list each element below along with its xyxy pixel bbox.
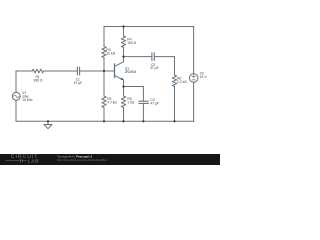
svg-text:47 µF: 47 µF bbox=[150, 66, 159, 70]
node ground R6 bbox=[173, 120, 175, 122]
wire R4 to collector bbox=[123, 47, 125, 62]
label R4 bbox=[127, 38, 137, 46]
svg-text:LAB: LAB bbox=[28, 158, 39, 163]
wire emitter node to C3 bbox=[124, 87, 144, 102]
wire R2 bottom to ground rail bbox=[103, 108, 105, 122]
svg-text:10 kHz: 10 kHz bbox=[22, 98, 33, 102]
wire R1 to C1 bbox=[44, 70, 77, 72]
wire rail to V2 bbox=[193, 27, 195, 74]
node emitter junction bbox=[122, 85, 124, 87]
svg-text:15 V: 15 V bbox=[200, 75, 208, 79]
label C1 bbox=[74, 78, 83, 86]
label R1 bbox=[34, 75, 44, 83]
wire R3 bottom to base node bbox=[103, 58, 105, 72]
svg-text:4.7 kΩ: 4.7 kΩ bbox=[107, 101, 117, 105]
label Q1 bbox=[125, 67, 137, 75]
svg-text:2.2 kΩ: 2.2 kΩ bbox=[177, 80, 187, 84]
capacitor C2 bbox=[152, 53, 154, 60]
svg-text:10 kΩ: 10 kΩ bbox=[106, 51, 115, 55]
label V1 bbox=[22, 91, 33, 102]
capacitor C1 bbox=[77, 67, 79, 74]
wire ground rail bbox=[16, 120, 194, 122]
voltage source V1 bbox=[12, 92, 20, 100]
wire C3 to ground rail bbox=[142, 103, 144, 121]
wire R5 to ground rail bbox=[123, 108, 125, 122]
label R2 bbox=[107, 97, 117, 105]
footer title text bbox=[57, 154, 108, 162]
node collector junction bbox=[122, 56, 124, 58]
resistor R6 bbox=[172, 75, 176, 87]
resistor R3 bbox=[102, 47, 106, 58]
wire top rail VCC bbox=[104, 26, 194, 28]
wire base node to R2 bbox=[103, 71, 105, 96]
resistor R2 bbox=[102, 96, 106, 108]
svg-text:100 Ω: 100 Ω bbox=[127, 41, 137, 45]
label C2 bbox=[150, 63, 159, 70]
svg-text:1 kΩ: 1 kΩ bbox=[127, 101, 134, 105]
node ground C3 bbox=[142, 120, 144, 122]
transistor Q1 bbox=[115, 62, 124, 80]
svg-text:995 Ω: 995 Ω bbox=[34, 78, 44, 82]
node base junction bbox=[103, 70, 105, 72]
label R5 bbox=[127, 97, 134, 105]
wire C2 to R6 corner bbox=[154, 57, 174, 75]
resistor R4 bbox=[121, 36, 125, 47]
CircuitLab logo bbox=[6, 154, 40, 163]
label R3 bbox=[106, 48, 115, 56]
label C3 bbox=[150, 98, 159, 106]
resistor R1 bbox=[32, 69, 43, 73]
wire R3 top (rail to R3) bbox=[103, 27, 105, 47]
wire V1 vertical top bbox=[15, 71, 17, 92]
resistor R5 bbox=[121, 96, 125, 108]
voltage source V2 bbox=[189, 74, 198, 83]
wire emitter vertical bbox=[123, 80, 125, 96]
svg-text:2N3904: 2N3904 bbox=[125, 70, 137, 74]
wire rail to R4 bbox=[123, 27, 125, 37]
node ground symbol bbox=[47, 120, 49, 122]
node ground R5 bbox=[122, 120, 124, 122]
label V2 bbox=[200, 72, 208, 80]
label R6 bbox=[177, 76, 187, 84]
svg-text:http://circuitlab.com/c/e4kb3c: http://circuitlab.com/c/e4kb3c422d8cv bbox=[57, 158, 108, 162]
wire C1 to Q1 base bbox=[80, 70, 115, 72]
capacitor C3 bbox=[139, 101, 148, 103]
node rail junction bbox=[122, 25, 124, 27]
node ground R2 bbox=[103, 120, 105, 122]
ground bbox=[44, 121, 52, 128]
svg-text:47 µF: 47 µF bbox=[150, 102, 159, 106]
footer bar bbox=[0, 154, 220, 165]
svg-text:47 µF: 47 µF bbox=[74, 81, 83, 85]
wire V1 top to R1 bbox=[16, 70, 32, 72]
wire V1 vertical bottom bbox=[15, 100, 17, 121]
wire V2 to ground rail bbox=[193, 82, 195, 121]
wire collector node to C2 bbox=[124, 56, 152, 58]
wire R6 to ground rail bbox=[174, 87, 176, 122]
